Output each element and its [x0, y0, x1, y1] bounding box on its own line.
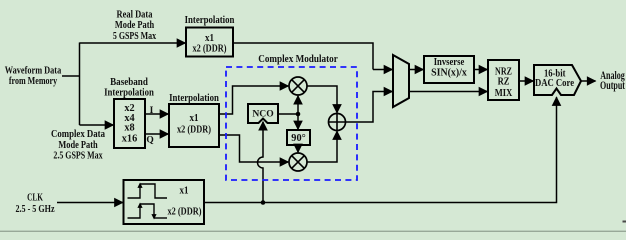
svg-text:x8: x8	[124, 123, 134, 134]
wire multiplier1 to adder	[307, 86, 337, 113]
svg-text:x2 (DDR): x2 (DDR)	[168, 206, 202, 218]
clock waveform x2(DDR) glyph	[128, 204, 168, 218]
wire mux bypass to NRZ box	[409, 91, 487, 93]
wire CLK distribution	[204, 97, 557, 202]
multiplier2 circle	[289, 153, 307, 171]
svg-text:Complex Modulator: Complex Modulator	[258, 53, 338, 65]
wire real-data path to Interpolation1	[80, 42, 186, 44]
90 degree box	[287, 130, 310, 145]
svg-text:Interpolation: Interpolation	[185, 14, 235, 26]
svg-text:x1: x1	[190, 112, 199, 124]
svg-text:Q: Q	[146, 135, 153, 145]
wire Q path into modulator	[219, 135, 288, 162]
wire mux to Invserse box	[409, 69, 423, 71]
wire multiplier2 to adder	[307, 131, 337, 162]
interpolation box 1	[186, 28, 233, 57]
svg-text:Interpolation: Interpolation	[169, 92, 219, 104]
CLK box	[124, 180, 205, 224]
svg-text:I: I	[150, 106, 154, 116]
wire NRZ to DAC core	[519, 80, 533, 82]
wire adder output to mux bottom input	[346, 92, 393, 123]
wire CLK to NCO with hop	[258, 122, 264, 203]
wire I from baseband to interp2	[145, 113, 168, 115]
junction dot CLK to NCO	[261, 200, 266, 205]
svg-text:CLK: CLK	[27, 191, 43, 203]
svg-text:from Memory: from Memory	[9, 75, 58, 86]
wire CLK input	[57, 202, 123, 204]
svg-text:x1: x1	[180, 185, 189, 197]
wire 90deg to multiplier2	[297, 145, 299, 152]
svg-text:90°: 90°	[291, 133, 305, 144]
svg-text:SIN(x)/x: SIN(x)/x	[431, 68, 467, 79]
svg-text:2.5 GSPS Max: 2.5 GSPS Max	[53, 150, 103, 161]
svg-text:Complex Data: Complex Data	[51, 128, 105, 140]
16-bit DAC core polygon with clock notch	[534, 65, 581, 95]
adder circle	[329, 114, 346, 131]
wire Invserse to NRZ box	[474, 69, 487, 71]
wire trunk vertical split	[79, 43, 81, 126]
wire NCO output	[278, 113, 298, 115]
svg-text:RZ: RZ	[498, 77, 510, 88]
svg-text:x16: x16	[122, 134, 137, 145]
svg-text:x1: x1	[205, 32, 214, 44]
wire DAC output arrow	[581, 80, 596, 82]
svg-text:NRZ: NRZ	[495, 65, 512, 76]
bottom edge shade	[0, 231, 626, 232]
mux trapezoid	[393, 55, 409, 107]
node waveform-data input wire	[62, 75, 80, 77]
svg-text:5 GSPS Max: 5 GSPS Max	[113, 30, 157, 41]
svg-text:x2 (DDR): x2 (DDR)	[193, 43, 227, 55]
small artifact mark	[623, 221, 626, 223]
clock waveform x1 glyph	[128, 184, 168, 198]
svg-text:Output: Output	[600, 80, 626, 93]
svg-text:DAC Core: DAC Core	[535, 78, 574, 89]
Invserse SIN(x)/x box	[424, 56, 474, 83]
svg-text:2.5 - 5 GHz: 2.5 - 5 GHz	[15, 204, 54, 215]
svg-text:x2 (DDR): x2 (DDR)	[177, 124, 211, 136]
wire Q from baseband to interp2	[145, 133, 168, 135]
svg-text:NCO: NCO	[252, 109, 273, 120]
wire I path into modulator	[219, 86, 288, 114]
wire complex-data path to Baseband Interpolation	[80, 124, 114, 126]
svg-text:MIX: MIX	[495, 88, 513, 99]
multiplier1 circle	[289, 77, 307, 95]
svg-text:Interpolation: Interpolation	[104, 87, 154, 99]
svg-text:Real Data: Real Data	[117, 10, 153, 21]
wire interp1 output rail	[233, 43, 373, 70]
wire NCO to multiplier1	[297, 96, 299, 114]
wire into mux top input	[373, 69, 392, 71]
NCO box with clock notch	[248, 104, 278, 123]
junction dot NCO output	[296, 112, 301, 117]
complex modulator dashed box	[226, 67, 357, 180]
NRZ RZ MIX box	[488, 60, 519, 100]
wire NCO to 90deg box	[297, 114, 299, 129]
baseband interpolation box	[114, 99, 145, 148]
interpolation box 2	[169, 104, 219, 147]
